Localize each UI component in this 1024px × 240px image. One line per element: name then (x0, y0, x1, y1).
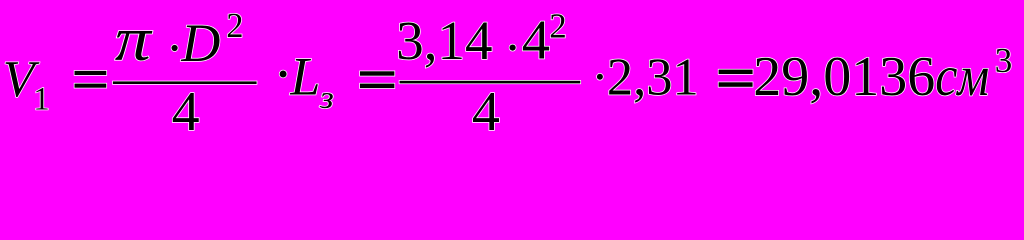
svg-text:4: 4 (472, 81, 500, 143)
svg-text:4: 4 (172, 81, 200, 143)
svg-text:π: π (115, 5, 154, 74)
svg-text:3,14: 3,14 (396, 10, 492, 71)
multiplication dot 1 (172, 45, 178, 51)
equals sign 1 bottom bar (75, 84, 107, 88)
svg-text:см: см (935, 44, 989, 108)
multiplication dot 4 (597, 74, 603, 80)
svg-text:29,0136: 29,0136 (753, 46, 935, 108)
svg-text:D: D (180, 13, 220, 73)
svg-text:3: 3 (995, 41, 1013, 80)
fraction bar 1 (113, 81, 257, 84)
svg-text:1: 1 (33, 82, 50, 118)
svg-text:L: L (289, 47, 320, 107)
svg-text:2: 2 (549, 6, 567, 45)
equals sign 1 top bar (75, 71, 107, 75)
equals sign 2 top bar (360, 71, 394, 75)
multiplication dot 3 (509, 45, 515, 51)
svg-text:2: 2 (226, 7, 243, 45)
equals sign 3 bottom bar (719, 82, 753, 87)
svg-text:2,31: 2,31 (607, 49, 699, 107)
svg-text:4: 4 (522, 10, 550, 72)
equals sign 2 bottom bar (360, 84, 394, 89)
fraction bar 2 (400, 81, 581, 84)
svg-text:з: з (319, 81, 334, 116)
equals sign 3 top bar (719, 70, 753, 74)
multiplication dot 2 (280, 71, 287, 78)
